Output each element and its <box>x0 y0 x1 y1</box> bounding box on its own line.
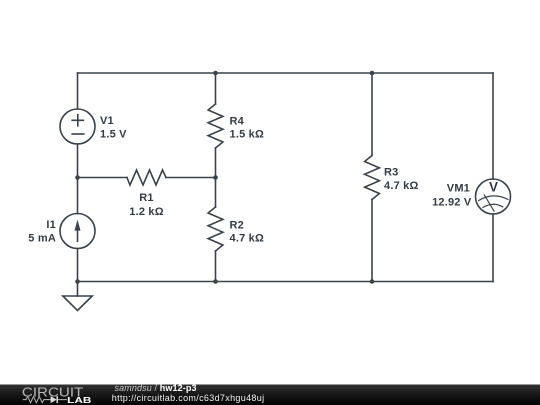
I1 arrow head <box>75 220 81 231</box>
svg-text:samndsu / hw12-p3: samndsu / hw12-p3 <box>115 383 197 393</box>
svg-text:R3: R3 <box>384 167 398 179</box>
wire R4 bottom to R2 top <box>215 148 217 207</box>
svg-text:1.2 kΩ: 1.2 kΩ <box>129 206 164 218</box>
wire I1 bottom to bottom rail <box>77 249 79 282</box>
logo resistor squiggle <box>23 397 51 403</box>
wire top horizontal <box>78 72 494 74</box>
wire bottom horizontal <box>78 281 494 283</box>
svg-text:R4: R4 <box>230 115 245 127</box>
voltage source V1 circle <box>60 109 95 144</box>
node dot bottom left (ground) <box>75 279 80 284</box>
node dot top middle <box>213 71 218 76</box>
wire V1 bottom to I1 top <box>77 144 79 214</box>
wire R3 bottom to bottom rail <box>371 200 373 282</box>
logo diode <box>51 396 57 403</box>
resistor R4 zigzag <box>208 104 223 148</box>
svg-text:4.7 kΩ: 4.7 kΩ <box>384 180 419 192</box>
current source I1 circle <box>60 214 95 249</box>
VM1 meter lower arc <box>483 204 503 207</box>
wire VM1 bottom to bottom rail <box>492 214 494 282</box>
svg-text:http://circuitlab.com/c63d7xhg: http://circuitlab.com/c63d7xhgu48uj <box>112 393 265 403</box>
ground stem <box>77 282 79 297</box>
VM1 meter needle <box>484 195 494 211</box>
svg-text:V: V <box>489 180 498 195</box>
svg-text:1.5 kΩ: 1.5 kΩ <box>230 129 265 141</box>
svg-text:4.7 kΩ: 4.7 kΩ <box>230 232 265 244</box>
I1 arrow shaft <box>77 228 79 241</box>
resistor R2 zigzag <box>208 207 223 251</box>
wire left vertical (top node to V1) <box>77 73 79 109</box>
resistor R3 zigzag <box>365 156 380 200</box>
node dot R1 left <box>75 175 80 180</box>
wire R3 branch top <box>371 73 373 156</box>
svg-text:LAB: LAB <box>67 396 92 405</box>
ground triangle <box>63 296 92 311</box>
wire R1 row horizontal <box>78 177 216 179</box>
node dot bottom R3 <box>370 279 375 284</box>
node dot top R3 <box>370 71 375 76</box>
svg-text:R2: R2 <box>230 220 244 232</box>
V1 minus sign <box>72 133 84 135</box>
svg-text:VM1: VM1 <box>447 183 470 195</box>
voltmeter VM1 circle <box>476 179 511 214</box>
node dot bottom middle <box>213 279 218 284</box>
svg-text:12.92 V: 12.92 V <box>432 196 472 208</box>
svg-text:V1: V1 <box>100 115 114 127</box>
svg-text:R1: R1 <box>139 192 153 204</box>
node dot R1 right <box>213 175 218 180</box>
wire VM1 branch top <box>492 73 494 179</box>
svg-text:1.5 V: 1.5 V <box>100 128 127 140</box>
wire middle vertical top to R4 <box>215 73 217 104</box>
svg-text:I1: I1 <box>46 219 56 231</box>
VM1 meter upper arc <box>479 196 508 201</box>
svg-text:5 mA: 5 mA <box>28 232 56 244</box>
resistor R1 zigzag <box>127 170 166 185</box>
wire R2 bottom to bottom rail <box>215 251 217 282</box>
V1 plus sign <box>72 115 83 126</box>
